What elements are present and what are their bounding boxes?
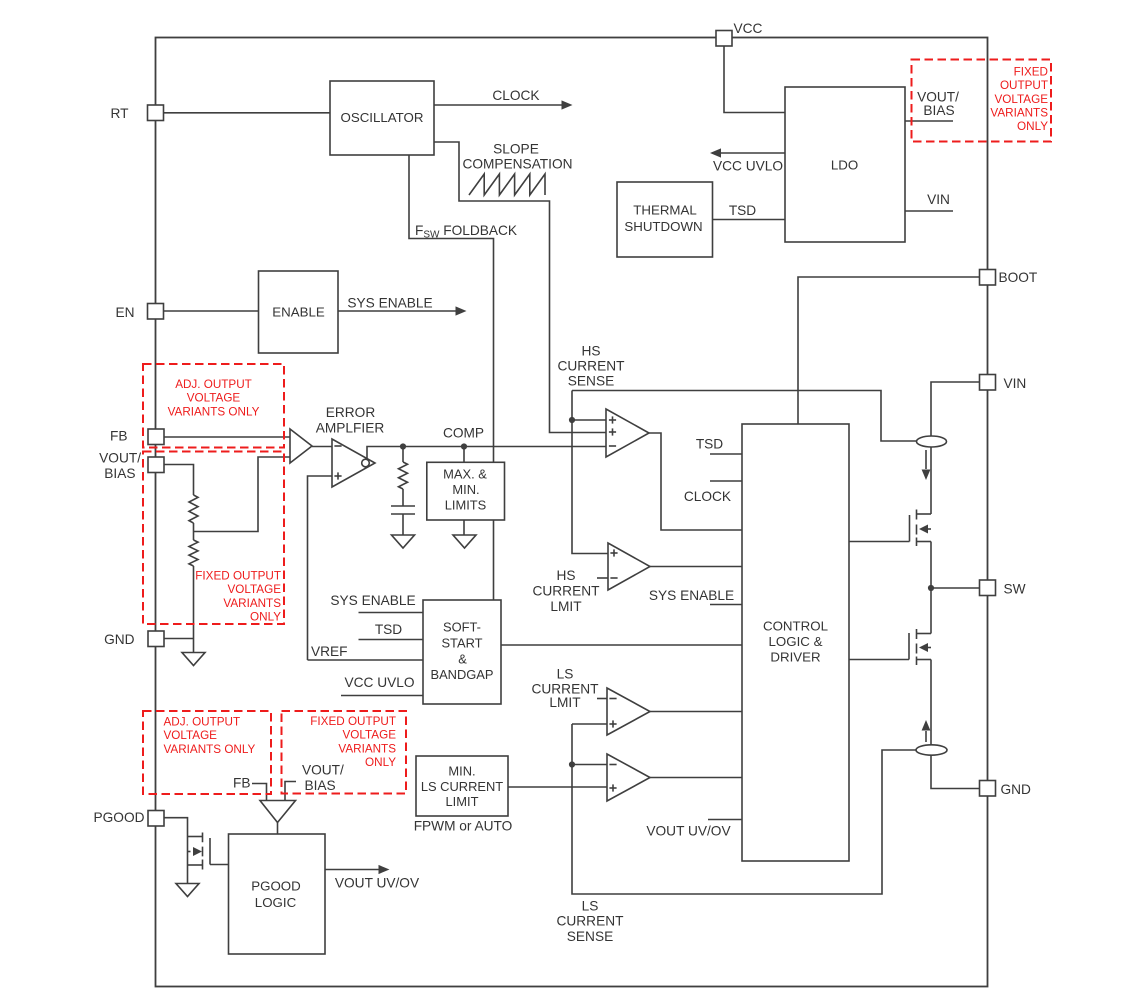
svg-text:COMPENSATION: COMPENSATION — [462, 157, 572, 172]
svg-text:DRIVER: DRIVER — [770, 650, 820, 665]
svg-text:FB: FB — [233, 776, 251, 791]
svg-text:SENSE: SENSE — [567, 929, 613, 944]
svg-text:VCC UVLO: VCC UVLO — [713, 159, 783, 174]
svg-text:CURRENT: CURRENT — [558, 359, 626, 374]
svg-text:GND: GND — [104, 632, 135, 647]
svg-text:EN: EN — [115, 305, 134, 320]
svg-text:SW: SW — [1004, 582, 1026, 597]
svg-text:BOOT: BOOT — [999, 270, 1038, 285]
svg-text:TSD: TSD — [729, 203, 756, 218]
svg-text:TSD: TSD — [375, 622, 402, 637]
svg-text:CURRENT: CURRENT — [557, 914, 625, 929]
svg-text:VOLTAGE: VOLTAGE — [343, 729, 397, 742]
svg-text:PGOOD: PGOOD — [251, 879, 301, 894]
svg-text:LMIT: LMIT — [550, 599, 582, 614]
svg-text:FIXED OUTPUT: FIXED OUTPUT — [195, 570, 281, 583]
svg-text:FPWM or AUTO: FPWM or AUTO — [414, 819, 513, 834]
svg-text:LIMIT: LIMIT — [446, 794, 479, 809]
svg-text:LIMITS: LIMITS — [445, 498, 487, 513]
svg-text:LS CURRENT: LS CURRENT — [421, 779, 503, 794]
svg-text:PGOOD: PGOOD — [94, 810, 145, 825]
svg-text:BIAS: BIAS — [305, 778, 336, 793]
svg-text:BIAS: BIAS — [104, 466, 135, 481]
svg-text:VIN: VIN — [927, 192, 950, 207]
svg-text:VARIANTS: VARIANTS — [223, 597, 281, 610]
svg-text:CONTROL: CONTROL — [763, 619, 828, 634]
svg-text:VOLTAGE: VOLTAGE — [995, 93, 1049, 106]
svg-text:THERMAL: THERMAL — [633, 203, 697, 218]
svg-text:VOUT UV/OV: VOUT UV/OV — [646, 824, 731, 839]
svg-text:VCC UVLO: VCC UVLO — [345, 675, 415, 690]
svg-text:START: START — [441, 636, 482, 651]
svg-text:MIN.: MIN. — [452, 482, 479, 497]
svg-text:VOUT UV/OV: VOUT UV/OV — [335, 876, 420, 891]
svg-text:OUTPUT: OUTPUT — [1000, 79, 1048, 92]
svg-text:LOGIC: LOGIC — [255, 895, 297, 910]
svg-text:VOLTAGE: VOLTAGE — [187, 392, 241, 405]
svg-text:OSCILLATOR: OSCILLATOR — [340, 110, 423, 125]
svg-text:RT: RT — [111, 106, 130, 121]
svg-text:BANDGAP: BANDGAP — [430, 667, 493, 682]
svg-text:SENSE: SENSE — [568, 374, 614, 389]
svg-text:VOUT/: VOUT/ — [302, 763, 344, 778]
svg-text:VARIANTS: VARIANTS — [338, 742, 396, 755]
svg-text:FIXED OUTPUT: FIXED OUTPUT — [310, 715, 396, 728]
svg-text:GND: GND — [1001, 782, 1032, 797]
svg-text:LOGIC &: LOGIC & — [769, 634, 823, 649]
svg-text:VREF: VREF — [311, 644, 348, 659]
svg-text:TSD: TSD — [696, 437, 723, 452]
svg-text:COMP: COMP — [443, 426, 484, 441]
svg-text:VIN: VIN — [1004, 376, 1027, 391]
svg-text:CLOCK: CLOCK — [684, 489, 731, 504]
svg-text:ONLY: ONLY — [365, 756, 396, 769]
svg-text:SLOPE: SLOPE — [493, 142, 539, 157]
svg-text:AMPLFIER: AMPLFIER — [316, 420, 385, 435]
svg-text:LS: LS — [557, 667, 574, 682]
svg-text:&: & — [458, 652, 467, 667]
svg-text:VARIANTS ONLY: VARIANTS ONLY — [164, 743, 256, 756]
svg-text:LS: LS — [582, 899, 599, 914]
svg-text:SOFT-: SOFT- — [443, 620, 481, 635]
svg-text:MIN.: MIN. — [448, 764, 475, 779]
svg-text:VOUT/: VOUT/ — [99, 451, 141, 466]
svg-text:VARIANTS: VARIANTS — [990, 107, 1048, 120]
svg-text:SHUTDOWN: SHUTDOWN — [624, 219, 702, 234]
svg-text:CLOCK: CLOCK — [492, 88, 539, 103]
svg-text:VARIANTS ONLY: VARIANTS ONLY — [168, 405, 260, 418]
svg-text:FIXED: FIXED — [1014, 65, 1048, 78]
svg-text:VOLTAGE: VOLTAGE — [164, 729, 218, 742]
svg-text:BIAS: BIAS — [923, 103, 954, 118]
svg-text:SYS ENABLE: SYS ENABLE — [347, 296, 432, 311]
svg-text:CURRENT: CURRENT — [533, 584, 601, 599]
svg-text:FB: FB — [110, 429, 128, 444]
svg-text:SYS ENABLE: SYS ENABLE — [649, 588, 734, 603]
svg-text:LMIT: LMIT — [549, 695, 581, 710]
svg-text:LDO: LDO — [831, 158, 858, 173]
svg-text:ADJ. OUTPUT: ADJ. OUTPUT — [175, 378, 252, 391]
svg-text:ADJ. OUTPUT: ADJ. OUTPUT — [164, 716, 241, 729]
svg-text:ENABLE: ENABLE — [272, 305, 325, 320]
svg-text:SYS ENABLE: SYS ENABLE — [330, 593, 415, 608]
svg-text:ONLY: ONLY — [250, 611, 281, 624]
svg-text:VCC: VCC — [734, 21, 763, 36]
svg-text:HS: HS — [556, 568, 575, 583]
svg-text:ONLY: ONLY — [1017, 120, 1048, 133]
svg-text:HS: HS — [581, 344, 600, 359]
svg-text:VOLTAGE: VOLTAGE — [228, 583, 282, 596]
svg-text:MAX. &: MAX. & — [443, 467, 487, 482]
svg-text:ERROR: ERROR — [326, 405, 376, 420]
